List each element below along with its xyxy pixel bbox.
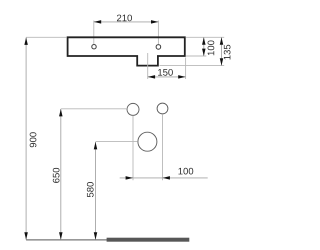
dimension 650 arrow down [59,232,63,239]
hole 2 in bar [156,45,161,50]
dimension 580 line [95,142,97,240]
extension line notch bottom right [160,65,225,67]
outlet circle C (large centre) [138,132,157,151]
dimension 900 text (rotated) [30,132,37,147]
dimension 100 arrow down [202,49,206,56]
dimension 210 arrow left [94,20,101,24]
dimension 135 text (rotated) [224,45,231,60]
dimension 150 extension line right (bar right edge) [185,58,187,80]
dimension 650 extension line (to circle A) [61,108,127,110]
dimension 150 text [158,69,173,76]
dimension 210 extension line right (through hole 2) [157,21,159,45]
dimension 135 arrow down [220,58,224,65]
dimension 100 mid extension line right (from circle B) [162,114,164,180]
dimension 100 mid extension line left (from circle A) [132,116,134,181]
floor ledge thick segment [107,238,190,242]
dimension 100 mid text [178,168,193,175]
dimension 135 arrow up [220,37,224,44]
dimension 580 text (rotated) [87,182,94,197]
dimension 150 arrow right [178,75,185,79]
dimension 650 line [60,109,62,240]
dimension 900 line [25,38,27,240]
extension line top right (bar top edge) [186,36,224,38]
dimension 100 (bar height) line [203,37,205,56]
dimension 150 arrow left [148,75,155,79]
dimension 100 mid arrow right (outside pointing left) [163,176,170,180]
dimension 210 line [94,21,159,23]
wall bar outline (bracket with bottom notch) [68,37,185,65]
dimension 580 arrow down [94,232,98,239]
dimension 650 text (rotated) [53,168,60,183]
dimension 900 extension line (to bar top-left corner) [26,36,67,38]
extension line bar bottom edge right [186,55,206,57]
floor line thin [26,239,107,241]
dimension 100 mid line [120,177,208,179]
dimension 210 arrow right [151,20,158,24]
hole 1 in bar [92,45,96,49]
dimension 580 extension line (to circle C) [96,141,138,143]
dimension 900 arrow down [24,232,28,239]
dimension 150 extension line left (notch centre) [147,53,149,79]
dimension 100 arrow up [202,37,206,44]
dimension 210 extension line left (through hole 1) [93,21,95,45]
dimension 650 arrow up [59,109,63,116]
dimension 210 text [117,15,132,22]
dimension 150 line [148,76,186,78]
outlet circle A (left small) [127,103,139,115]
dimension 580 arrow up [94,142,98,149]
dimension 100 mid arrow left (outside pointing right) [126,176,133,180]
dimension 900 arrow up [24,38,28,45]
dimension 135 (bar + notch height) line [221,37,223,65]
dimension 100 text (rotated) [208,40,215,55]
outlet circle B (right small) [157,103,168,114]
